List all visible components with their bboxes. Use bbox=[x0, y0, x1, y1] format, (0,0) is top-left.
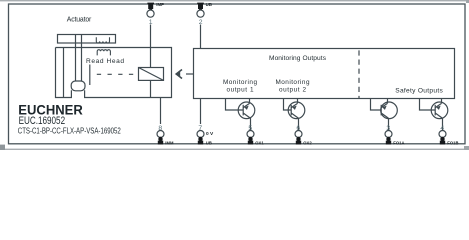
svg-text:Actuator: Actuator bbox=[67, 16, 92, 23]
main box bbox=[194, 49, 455, 99]
svg-text:output 1: output 1 bbox=[227, 86, 254, 93]
svg-text:OX1: OX1 bbox=[255, 141, 264, 146]
scan corner mark top-right bbox=[466, 0, 469, 3]
scan corner mark bottom-left bbox=[0, 145, 5, 150]
actuator tongue lines bbox=[76, 35, 82, 81]
svg-text:IMP: IMP bbox=[156, 2, 164, 7]
arrowhead to read head bbox=[176, 70, 182, 79]
terminal 2 top (UB) bbox=[197, 2, 212, 26]
actuator coil bbox=[96, 37, 109, 43]
terminal 7 bottom (0V / UB) bbox=[197, 125, 214, 146]
scan edge artifact bottom bbox=[0, 149, 469, 150]
svg-text:Monitoring: Monitoring bbox=[276, 79, 310, 86]
svg-text:Monitoring Outputs: Monitoring Outputs bbox=[269, 55, 327, 62]
border frame bbox=[9, 4, 466, 144]
read head inner wall bbox=[63, 48, 65, 98]
transistor Q4 (safety output FO1B) bbox=[420, 99, 448, 131]
svg-text:FO1A: FO1A bbox=[393, 141, 404, 146]
actuator bar bbox=[58, 35, 116, 44]
read head channel wall bbox=[89, 65, 91, 86]
svg-text:Monitoring: Monitoring bbox=[223, 79, 257, 86]
wire terminal1 to solenoid bbox=[150, 25, 152, 68]
svg-text:1: 1 bbox=[149, 19, 153, 26]
terminal 3 bottom (FO1A) bbox=[385, 125, 404, 146]
svg-text:FO1B: FO1B bbox=[447, 141, 458, 146]
svg-text:Safety Outputs: Safety Outputs bbox=[395, 88, 443, 95]
svg-text:0 V: 0 V bbox=[206, 131, 214, 137]
svg-text:CTS-C1-BP-CC-FLX-AP-VSA-169052: CTS-C1-BP-CC-FLX-AP-VSA-169052 bbox=[18, 125, 121, 135]
transistor Q1 (monitoring output 1) bbox=[226, 99, 255, 131]
dashed divider bbox=[358, 50, 360, 98]
wire read head to terminal8 bbox=[160, 98, 162, 125]
terminal 8 bottom (IMM) bbox=[157, 125, 174, 146]
solenoid diagonal bbox=[139, 68, 164, 81]
svg-text:UB: UB bbox=[206, 2, 212, 7]
wire main box to terminal7 bbox=[200, 99, 202, 125]
svg-text:Read Head: Read Head bbox=[86, 58, 124, 65]
svg-text:UB: UB bbox=[206, 141, 212, 146]
wire solenoid to box bottom bbox=[150, 80, 152, 97]
arrow link to main box bbox=[186, 73, 194, 75]
solenoid box bbox=[139, 68, 164, 81]
read head box bbox=[56, 48, 172, 98]
svg-text:IMM: IMM bbox=[165, 141, 174, 146]
terminal 4 bottom (FO1B) bbox=[439, 125, 458, 146]
svg-text:output 2: output 2 bbox=[279, 86, 306, 93]
dashed coupling line bbox=[97, 73, 139, 75]
svg-text:OX2: OX2 bbox=[303, 141, 312, 146]
wire terminal2 to main box bbox=[200, 25, 202, 49]
transistor Q3 (safety output FO1A) bbox=[371, 99, 398, 131]
svg-text:2: 2 bbox=[199, 19, 203, 26]
terminal 6 bottom (OX2) bbox=[295, 125, 312, 146]
actuator ball bbox=[71, 81, 85, 91]
scan edge artifact top bbox=[0, 0, 469, 1]
scan corner mark bottom-right bbox=[464, 146, 469, 150]
terminal 5 bottom (OX1) bbox=[247, 125, 264, 146]
transistor Q2 (monitoring output 2) bbox=[284, 99, 305, 131]
read head coil bbox=[97, 50, 110, 56]
terminal 1 top (IMP) bbox=[147, 2, 164, 26]
